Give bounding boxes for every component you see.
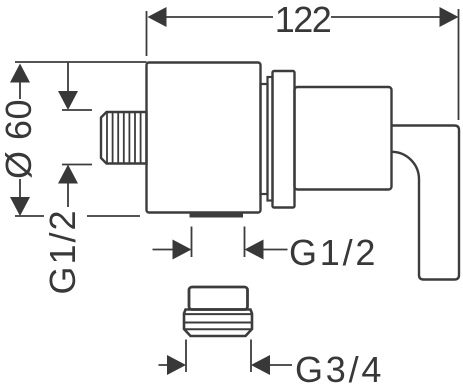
svg-text:Ø 60: Ø 60 bbox=[0, 99, 39, 179]
adapter collar G3/4 piece top bbox=[189, 287, 248, 310]
extension line port right bbox=[244, 227, 246, 258]
arrowhead thread top bbox=[58, 91, 78, 110]
arrowhead G3/4 left bbox=[167, 355, 186, 375]
label dia 60 bbox=[0, 99, 39, 179]
svg-text:G3/4: G3/4 bbox=[295, 349, 384, 390]
extension line 122 left bbox=[146, 11, 148, 56]
arrowhead thread bottom bbox=[58, 165, 78, 184]
ring bbox=[268, 77, 273, 201]
neck between body and ring bbox=[261, 84, 268, 194]
extension tick thread top bbox=[62, 109, 92, 111]
extension line body bottom for dia60 bbox=[15, 215, 140, 217]
svg-text:122: 122 bbox=[275, 0, 331, 40]
arrowhead dia60 top bbox=[10, 64, 30, 83]
extension line adapter left bbox=[185, 340, 187, 373]
adapter threaded part G3/4 bbox=[184, 310, 252, 337]
dimension line dia60 bbox=[19, 80, 21, 197]
cartridge cylinder bbox=[295, 87, 392, 190]
arrowhead dia60 bottom bbox=[10, 197, 30, 216]
svg-text:G1/2: G1/2 bbox=[42, 208, 83, 294]
arrowhead port left bbox=[173, 240, 192, 260]
flange bbox=[273, 71, 295, 208]
arrowhead 122 left bbox=[148, 7, 167, 27]
label G3/4 bbox=[295, 349, 384, 390]
label 122 bbox=[275, 0, 331, 40]
arrowhead port right bbox=[245, 240, 264, 260]
dimension line G3/4 bbox=[159, 364, 293, 366]
svg-text:G1/2: G1/2 bbox=[289, 232, 378, 273]
dimension line 122 bbox=[165, 16, 440, 18]
extension line adapter right bbox=[250, 340, 252, 373]
label G1/2 bottom bbox=[289, 232, 378, 273]
dimension line G1/2 left bbox=[67, 62, 69, 207]
bottom port lip bbox=[190, 213, 244, 218]
dimension line port G1/2 bbox=[153, 249, 288, 251]
extension tick thread bottom bbox=[62, 164, 92, 166]
extension line body top for dia60 bbox=[15, 61, 147, 63]
extension line 122 right bbox=[458, 9, 460, 120]
threaded inlet G1/2 left bbox=[101, 112, 147, 164]
arrowhead 122 right bbox=[440, 7, 459, 27]
valve body bbox=[147, 63, 261, 213]
extension line port left bbox=[191, 227, 193, 258]
label G1/2 left bbox=[42, 208, 83, 294]
arrowhead G3/4 right bbox=[251, 355, 270, 375]
lever handle bbox=[392, 126, 460, 280]
